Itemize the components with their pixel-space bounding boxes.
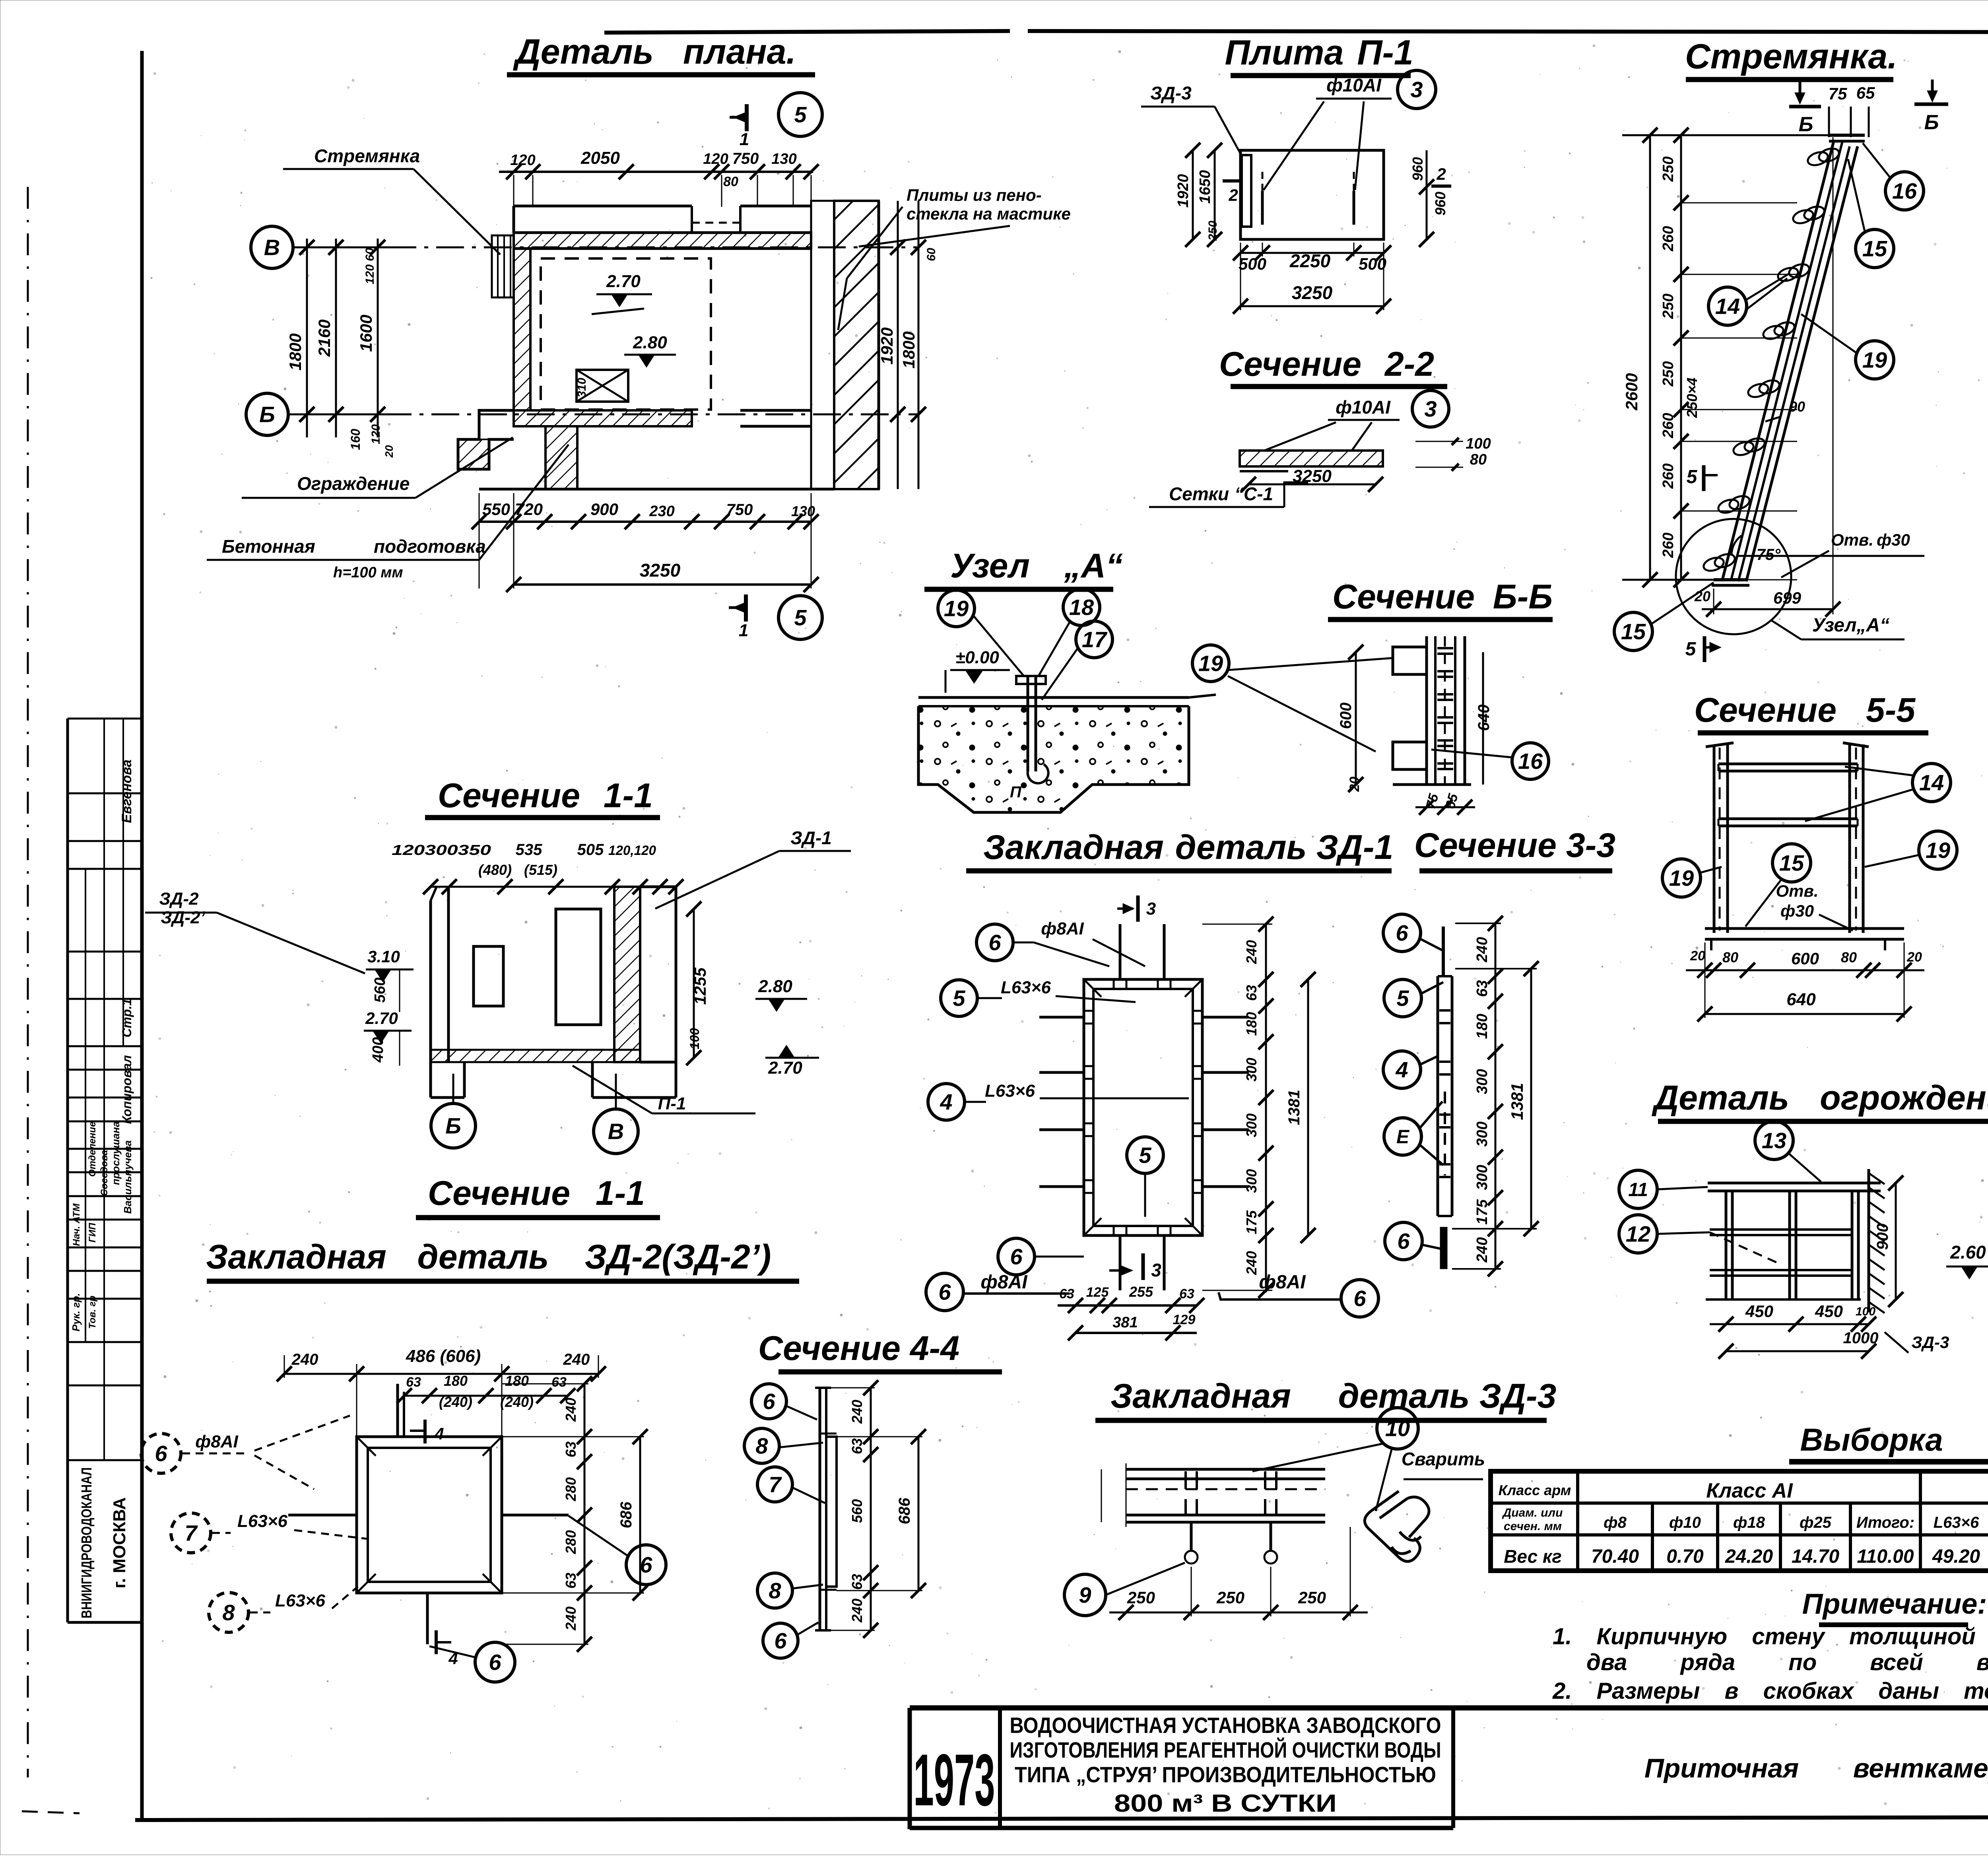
svg-text:300: 300 bbox=[1243, 1058, 1260, 1082]
svg-text:5: 5 bbox=[794, 605, 807, 630]
svg-text:19: 19 bbox=[1862, 348, 1887, 373]
svg-text:240: 240 bbox=[1474, 937, 1491, 962]
svg-text:63: 63 bbox=[1474, 980, 1491, 997]
svg-text:8: 8 bbox=[222, 1600, 235, 1625]
svg-text:1381: 1381 bbox=[1508, 1083, 1526, 1120]
svg-text:2. Размеры в скобках даны толь: 2. Размеры в скобках даны только для t=-… bbox=[1552, 1678, 1988, 1704]
svg-text:ф30: ф30 bbox=[1780, 901, 1814, 920]
svg-text:деталь: деталь bbox=[417, 1238, 549, 1276]
label ZD-3 with leader bbox=[1141, 83, 1241, 155]
svg-text:Стремянка.: Стремянка. bbox=[1685, 37, 1897, 76]
svg-text:180: 180 bbox=[444, 1373, 468, 1389]
title block project name bbox=[1010, 1708, 1454, 1828]
ograzh bottom dims bbox=[1710, 1302, 1949, 1359]
svg-text:900: 900 bbox=[590, 500, 618, 519]
svg-text:1920: 1920 bbox=[1175, 174, 1192, 208]
svg-text:500: 500 bbox=[1359, 254, 1386, 273]
svg-text:ф10АІ: ф10АІ bbox=[1326, 75, 1382, 95]
svg-text:6: 6 bbox=[763, 1389, 775, 1414]
svg-text:2-2: 2-2 bbox=[1384, 345, 1434, 383]
svg-text:90: 90 bbox=[1789, 398, 1805, 415]
svg-text:Закладная: Закладная bbox=[206, 1238, 386, 1276]
svg-text:Отв.: Отв. bbox=[1831, 530, 1873, 549]
grid circles sech11 bbox=[431, 1074, 476, 1148]
svg-text:500: 500 bbox=[1239, 254, 1266, 273]
zd1 section mark 3 bottom bbox=[1109, 1253, 1161, 1280]
svg-text:5: 5 bbox=[953, 986, 965, 1011]
svg-text:плана.: плана. bbox=[683, 32, 796, 71]
svg-text:129: 129 bbox=[1173, 1312, 1196, 1327]
svg-text:L63×6: L63×6 bbox=[1001, 978, 1051, 997]
svg-text:960: 960 bbox=[1409, 157, 1426, 181]
svg-text:250: 250 bbox=[1127, 1588, 1155, 1607]
svg-text:80: 80 bbox=[723, 174, 738, 189]
sech55 frame drawing bbox=[1705, 743, 1904, 950]
svg-text:стекла на мастике: стекла на мастике bbox=[907, 204, 1071, 223]
zd1 section mark 3 top bbox=[1117, 895, 1156, 922]
svg-text:2160: 2160 bbox=[315, 319, 334, 357]
svg-text:ф8АІ: ф8АІ bbox=[195, 1432, 238, 1451]
svg-text:Сечение 3-3: Сечение 3-3 bbox=[1414, 826, 1615, 864]
svg-text:1: 1 bbox=[739, 621, 748, 640]
zd2 top dims bbox=[277, 1346, 606, 1437]
svg-text:огрождения.: огрождения. bbox=[1820, 1079, 1988, 1117]
svg-text:ТИПА „СТРУЯ’ ПРОИЗВОДИТЕЛЬНОСТ: ТИПА „СТРУЯ’ ПРОИЗВОДИТЕЛЬНОСТЬЮ bbox=[1015, 1762, 1436, 1787]
svg-text:6: 6 bbox=[1353, 1286, 1366, 1311]
svg-text:240: 240 bbox=[563, 1351, 590, 1368]
svg-text:240: 240 bbox=[563, 1398, 579, 1422]
ograzhdenie drawing bbox=[1706, 1169, 1885, 1313]
svg-text:Б: Б bbox=[445, 1113, 461, 1138]
svg-text:1: 1 bbox=[740, 130, 749, 149]
zd1 interior callout 5 bbox=[1127, 1137, 1163, 1217]
section mark 5 bottom bbox=[729, 594, 822, 640]
label ograzhdenie bbox=[242, 437, 513, 498]
left title stamp table bbox=[68, 719, 142, 1622]
zd1 callout 6 bottom-left bbox=[998, 1238, 1084, 1275]
svg-text:В: В bbox=[608, 1119, 624, 1144]
svg-text:3: 3 bbox=[1146, 899, 1156, 919]
svg-text:600: 600 bbox=[1337, 703, 1355, 729]
svg-text:Плита: Плита bbox=[1225, 33, 1344, 72]
svg-text:ИЗГОТОВЛЕНИЯ РЕАГЕНТНОЙ ОЧИСТК: ИЗГОТОВЛЕНИЯ РЕАГЕНТНОЙ ОЧИСТКИ ВОДЫ bbox=[1010, 1737, 1441, 1762]
ladder rungs bbox=[1702, 146, 1841, 573]
label plity iz penostekla bbox=[838, 186, 1071, 330]
svg-text:5: 5 bbox=[794, 102, 807, 127]
svg-text:4: 4 bbox=[940, 1090, 952, 1115]
zd2 frame drawing bbox=[288, 1384, 569, 1644]
svg-text:прослушана: прослушана bbox=[110, 1121, 122, 1185]
ladder stringers bbox=[1722, 135, 1865, 608]
svg-text:310: 310 bbox=[575, 378, 588, 398]
svg-text:ф30: ф30 bbox=[1877, 530, 1910, 549]
callout 16 sechBB bbox=[1431, 743, 1549, 779]
svg-text:ЗД-3: ЗД-3 bbox=[1912, 1333, 1949, 1352]
svg-text:60: 60 bbox=[925, 248, 938, 261]
svg-text:сечен. мм: сечен. мм bbox=[1504, 1520, 1562, 1533]
svg-text:300: 300 bbox=[1243, 1113, 1260, 1137]
heading vyborka stali bbox=[1789, 1422, 1988, 1469]
svg-text:2.70: 2.70 bbox=[606, 272, 641, 291]
svg-text:24.20: 24.20 bbox=[1725, 1546, 1773, 1567]
sech55 callout 15 + otv f30 bbox=[1745, 844, 1853, 930]
zd1 callout 6 top bbox=[977, 919, 1145, 966]
svg-text:65: 65 bbox=[1856, 84, 1875, 102]
sech55 callout 14 bbox=[1805, 763, 1951, 821]
svg-text:80: 80 bbox=[1470, 451, 1487, 468]
svg-text:120,120: 120,120 bbox=[608, 843, 656, 858]
svg-text:10: 10 bbox=[1385, 1416, 1410, 1441]
svg-text:550: 550 bbox=[482, 500, 510, 519]
heading stremyanka bbox=[1685, 37, 1897, 80]
sech55 callout 19 left bbox=[1662, 859, 1722, 897]
svg-text:175: 175 bbox=[1243, 1210, 1260, 1234]
svg-text:11: 11 bbox=[1628, 1179, 1648, 1200]
svg-text:505: 505 bbox=[577, 841, 604, 859]
svg-text:3: 3 bbox=[1151, 1260, 1161, 1280]
ladder section 5 marks bbox=[1685, 465, 1719, 662]
svg-text:125: 125 bbox=[1086, 1285, 1109, 1300]
svg-text:6: 6 bbox=[640, 1552, 652, 1577]
svg-text:ЗД-1: ЗД-1 bbox=[790, 827, 832, 848]
ladder callout 14 bbox=[1708, 274, 1789, 325]
svg-text:180: 180 bbox=[1474, 1014, 1491, 1039]
svg-text:800 м³ В СУТКИ: 800 м³ В СУТКИ bbox=[1114, 1790, 1337, 1817]
svg-text:280: 280 bbox=[563, 1530, 579, 1554]
svg-text:63: 63 bbox=[849, 1574, 865, 1590]
svg-text:Диам. или: Диам. или bbox=[1502, 1506, 1563, 1519]
heading sechenie 2-2 bbox=[1219, 345, 1447, 387]
svg-text:Примечание:: Примечание: bbox=[1802, 1588, 1987, 1620]
svg-text:260: 260 bbox=[1660, 413, 1677, 438]
svg-text:49.20: 49.20 bbox=[1932, 1546, 1980, 1567]
svg-text:Сечение: Сечение bbox=[1694, 691, 1837, 729]
svg-text:Вес кг: Вес кг bbox=[1504, 1546, 1562, 1567]
svg-text:130: 130 bbox=[771, 151, 796, 167]
svg-text:1800: 1800 bbox=[899, 331, 918, 368]
svg-text:1-1: 1-1 bbox=[604, 777, 653, 815]
sech33 dim chain bbox=[1452, 916, 1539, 1276]
svg-text:20: 20 bbox=[1347, 777, 1362, 792]
svg-text:16: 16 bbox=[1892, 179, 1917, 204]
svg-text:Класс АІ: Класс АІ bbox=[1706, 1479, 1793, 1502]
svg-text:Копировал: Копировал bbox=[120, 1055, 134, 1124]
svg-text:Узел„А“: Узел„А“ bbox=[1812, 615, 1889, 636]
svg-text:Соседова: Соседова bbox=[99, 1150, 110, 1196]
ladder bottom dims bbox=[1694, 588, 1840, 617]
svg-text:19: 19 bbox=[1198, 651, 1223, 676]
svg-text:15: 15 bbox=[1779, 851, 1804, 876]
svg-text:Стр.1: Стр.1 bbox=[120, 998, 134, 1037]
svg-text:280: 280 bbox=[563, 1477, 579, 1502]
callout 17 uzel bbox=[1042, 621, 1112, 700]
svg-text:250: 250 bbox=[1660, 156, 1677, 182]
svg-text:640: 640 bbox=[1786, 990, 1816, 1009]
callout 19 uzel bbox=[938, 590, 1024, 676]
svg-text:Закладная: Закладная bbox=[1110, 1377, 1291, 1415]
table: steel selection for all products bbox=[1491, 1471, 1988, 1571]
svg-text:1255: 1255 bbox=[691, 967, 709, 1005]
svg-text:Узел: Узел bbox=[950, 547, 1030, 585]
plan interior dashed outline bbox=[541, 258, 711, 410]
svg-text:1. Кирпичную стену толщиной 12: 1. Кирпичную стену толщиной 120 мм армир… bbox=[1553, 1624, 1988, 1649]
sech44 right dims bbox=[831, 1380, 926, 1638]
plan left dimension chains bbox=[286, 239, 398, 458]
uzel A level mark bbox=[945, 648, 1010, 693]
svg-text:63: 63 bbox=[849, 1438, 865, 1454]
left margin fold dash-dot line bbox=[22, 187, 80, 1813]
notes text bbox=[1552, 1624, 1988, 1704]
svg-text:5: 5 bbox=[1396, 986, 1409, 1011]
sech11 left dims bbox=[364, 947, 414, 1066]
zd1 callout 5 bbox=[941, 978, 1136, 1016]
border frame top line bbox=[604, 31, 1988, 33]
label ZD-2 leader bbox=[145, 889, 365, 973]
heading sechenie 4-4 bbox=[758, 1329, 1002, 1372]
svg-text:Б: Б bbox=[1799, 113, 1813, 136]
zd1 bottom dims bbox=[1058, 1284, 1204, 1340]
svg-text:3250: 3250 bbox=[1292, 282, 1333, 303]
svg-text:г. МОСКВА: г. МОСКВА bbox=[110, 1497, 129, 1588]
title block outer bbox=[910, 1708, 1988, 1829]
svg-text:П-1: П-1 bbox=[1357, 33, 1413, 72]
plita P-1 plan drawing bbox=[1241, 150, 1384, 239]
svg-text:венткамера.: венткамера. bbox=[1853, 1753, 1988, 1783]
svg-text:100: 100 bbox=[1856, 1305, 1875, 1318]
svg-text:63: 63 bbox=[551, 1375, 567, 1390]
svg-text:240: 240 bbox=[1243, 1251, 1260, 1275]
svg-text:2: 2 bbox=[1228, 186, 1238, 204]
svg-text:300: 300 bbox=[1243, 1169, 1260, 1193]
svg-text:Сечение: Сечение bbox=[438, 777, 580, 815]
svg-text:175: 175 bbox=[1474, 1199, 1491, 1224]
svg-text:9: 9 bbox=[1079, 1583, 1091, 1608]
label f10AI + callout 3 sech22 bbox=[1264, 390, 1449, 451]
sech11 section drawing bbox=[431, 887, 676, 1097]
svg-text:260: 260 bbox=[1660, 226, 1677, 251]
svg-text:7: 7 bbox=[184, 1521, 198, 1546]
svg-text:3: 3 bbox=[1424, 396, 1437, 422]
svg-text:ф10АІ: ф10АІ bbox=[1336, 397, 1391, 418]
heading zakladnaya detal ZD-2 bbox=[206, 1238, 799, 1281]
svg-text:180: 180 bbox=[1243, 1012, 1260, 1036]
zd1 frame drawing bbox=[1039, 924, 1249, 1290]
svg-text:2: 2 bbox=[1436, 165, 1446, 183]
svg-text:подготовка: подготовка bbox=[374, 536, 486, 557]
ladder callout 15 bottom bbox=[1614, 583, 1714, 651]
svg-text:15: 15 bbox=[1862, 236, 1887, 261]
svg-text:450: 450 bbox=[1815, 1302, 1843, 1321]
svg-text:Е: Е bbox=[1396, 1127, 1410, 1148]
svg-text:1800: 1800 bbox=[286, 333, 305, 370]
zd1 callout 4 bbox=[928, 1081, 1189, 1120]
svg-text:240: 240 bbox=[1474, 1237, 1491, 1263]
label stremyanka bbox=[283, 146, 500, 254]
sech11 right dims bbox=[686, 901, 819, 1078]
zd2 callout 6 dashed bbox=[141, 1416, 350, 1489]
plita right dims bbox=[1409, 150, 1451, 247]
svg-text:686: 686 bbox=[617, 1502, 635, 1528]
svg-text:Б-Б: Б-Б bbox=[1493, 578, 1553, 616]
svg-text:ф25: ф25 bbox=[1800, 1514, 1832, 1531]
svg-text:6: 6 bbox=[988, 930, 1001, 955]
heading zakladnaya detal ZD-3 bbox=[1095, 1377, 1556, 1420]
svg-text:63: 63 bbox=[563, 1441, 579, 1457]
svg-text:260: 260 bbox=[1660, 532, 1677, 558]
svg-text:Отв.: Отв. bbox=[1776, 882, 1818, 900]
svg-text:Евгенова: Евгенова bbox=[119, 760, 134, 823]
label setki S-1 bbox=[1149, 482, 1308, 507]
svg-text:2.70: 2.70 bbox=[365, 1009, 398, 1028]
svg-text:ф18: ф18 bbox=[1733, 1514, 1765, 1531]
svg-text:деталь ЗД-1: деталь ЗД-1 bbox=[1175, 828, 1394, 866]
svg-text:2250: 2250 bbox=[1289, 251, 1331, 271]
heading sechenie 3-3 bbox=[1414, 826, 1615, 871]
svg-text:80: 80 bbox=[1841, 949, 1857, 965]
svg-text:240: 240 bbox=[563, 1606, 579, 1631]
zd3 callout 9 bbox=[1064, 1563, 1185, 1616]
svg-text:4: 4 bbox=[434, 1424, 444, 1443]
svg-text:Класс арм: Класс арм bbox=[1499, 1482, 1571, 1498]
ladder 90 text bbox=[1765, 398, 1805, 422]
uzel A symbol P bbox=[1010, 783, 1022, 801]
svg-text:1-1: 1-1 bbox=[596, 1174, 645, 1212]
sech55 bottom dims bbox=[1686, 942, 1924, 1022]
svg-text:„А“: „А“ bbox=[1064, 547, 1123, 585]
svg-text:ЗД-2(ЗД-2’): ЗД-2(ЗД-2’) bbox=[585, 1238, 771, 1276]
ograzh callout 13 bbox=[1755, 1121, 1821, 1182]
label uzel A on ladder bbox=[1771, 615, 1905, 639]
svg-text:120: 120 bbox=[510, 152, 535, 169]
svg-text:Приточная: Приточная bbox=[1644, 1753, 1799, 1783]
svg-text:8: 8 bbox=[755, 1434, 768, 1459]
svg-text:5: 5 bbox=[1139, 1143, 1151, 1168]
svg-text:15: 15 bbox=[1621, 619, 1646, 644]
plan top dimension chain bbox=[499, 148, 819, 207]
svg-text:250: 250 bbox=[1660, 361, 1677, 387]
svg-text:100: 100 bbox=[1466, 435, 1491, 452]
zd2 callout 6 bottom + mark 4 bbox=[429, 1630, 515, 1682]
svg-text:1000: 1000 bbox=[1843, 1329, 1879, 1347]
callout 18 uzel bbox=[1039, 589, 1100, 676]
svg-text:L63×6: L63×6 bbox=[275, 1591, 326, 1610]
svg-text:В: В bbox=[264, 235, 280, 260]
svg-text:900: 900 bbox=[1874, 1224, 1891, 1250]
svg-text:ВОДООЧИСТНАЯ УСТАНОВКА ЗАВОДСК: ВОДООЧИСТНАЯ УСТАНОВКА ЗАВОДСКОГО bbox=[1010, 1713, 1441, 1738]
svg-text:110.00: 110.00 bbox=[1857, 1546, 1914, 1567]
svg-text:63: 63 bbox=[1059, 1286, 1074, 1301]
svg-text:240: 240 bbox=[1243, 940, 1260, 964]
svg-text:2600: 2600 bbox=[1622, 373, 1641, 410]
heading primechanie bbox=[1802, 1588, 1987, 1625]
svg-text:535: 535 bbox=[516, 841, 542, 859]
uzel A anchor bolt bbox=[1016, 676, 1048, 783]
zd2 callout 6 right bbox=[569, 1516, 666, 1585]
svg-text:20: 20 bbox=[1906, 950, 1922, 965]
svg-text:6: 6 bbox=[1010, 1244, 1023, 1269]
plan bottom dimension chains bbox=[472, 493, 819, 592]
zd2 right dim chains bbox=[502, 1376, 648, 1652]
svg-text:деталь ЗД-3: деталь ЗД-3 bbox=[1338, 1377, 1557, 1415]
plan interior details bbox=[575, 272, 676, 402]
svg-text:h=100 мм: h=100 мм bbox=[333, 564, 403, 581]
svg-text:(515): (515) bbox=[524, 862, 557, 878]
heading sechenie 1-1 upper bbox=[425, 777, 660, 818]
svg-text:6: 6 bbox=[774, 1628, 787, 1653]
heading uzel A bbox=[924, 547, 1123, 589]
section mark 5 top bbox=[730, 93, 822, 149]
border frame left line bbox=[140, 51, 144, 1820]
svg-text:6: 6 bbox=[489, 1650, 501, 1675]
svg-text:L63×6: L63×6 bbox=[985, 1081, 1035, 1101]
svg-text:2.60: 2.60 bbox=[1950, 1242, 1986, 1263]
svg-text:2.70: 2.70 bbox=[768, 1058, 802, 1078]
svg-text:18: 18 bbox=[1069, 595, 1094, 620]
svg-text:Сечение: Сечение bbox=[1219, 345, 1361, 383]
label betonnaya podgotovka bbox=[207, 445, 569, 581]
svg-text:6: 6 bbox=[155, 1441, 167, 1466]
svg-text:75: 75 bbox=[1829, 84, 1847, 103]
ladder callout 16 bbox=[1863, 143, 1924, 210]
svg-text:ЗД-2: ЗД-2 bbox=[159, 889, 199, 909]
svg-text:6: 6 bbox=[938, 1280, 951, 1305]
svg-text:20: 20 bbox=[1690, 948, 1705, 963]
svg-text:120: 120 bbox=[703, 151, 728, 167]
svg-text:два ряда по всей высоте кладки: два ряда по всей высоте кладки. bbox=[1586, 1649, 1988, 1675]
heading sechenie 5-5 bbox=[1694, 691, 1928, 733]
svg-text:120: 120 bbox=[369, 424, 382, 444]
sech33 strip bbox=[1438, 927, 1452, 1269]
svg-text:ф8: ф8 bbox=[1604, 1514, 1627, 1531]
border frame bottom line bbox=[135, 1816, 1988, 1820]
svg-text:Отделение: Отделение bbox=[87, 1122, 98, 1177]
svg-text:14: 14 bbox=[1715, 294, 1740, 319]
svg-text:8: 8 bbox=[769, 1578, 781, 1603]
svg-text:Бетонная: Бетонная bbox=[222, 536, 315, 557]
svg-text:ф8АІ: ф8АІ bbox=[1041, 919, 1084, 938]
svg-text:400: 400 bbox=[370, 1037, 386, 1063]
zd1 bottom labels bbox=[926, 1272, 1070, 1311]
heading detal plana bbox=[507, 32, 815, 75]
svg-text:640: 640 bbox=[1475, 705, 1493, 731]
svg-text:240: 240 bbox=[849, 1400, 865, 1424]
heading zakladnaya detal ZD-1 bbox=[966, 828, 1393, 871]
sech11 top dims bbox=[392, 841, 683, 894]
svg-text:120300350: 120300350 bbox=[392, 842, 491, 858]
stamp signatures rotated text bbox=[70, 760, 134, 1331]
svg-text:14: 14 bbox=[1919, 770, 1944, 795]
zd2 callout 7 bbox=[171, 1511, 368, 1553]
svg-text:Васильнучева: Васильнучева bbox=[122, 1140, 134, 1214]
svg-text:6: 6 bbox=[1396, 921, 1408, 946]
svg-text:63: 63 bbox=[406, 1375, 421, 1390]
svg-text:699: 699 bbox=[1773, 589, 1802, 607]
svg-text:100: 100 bbox=[687, 1028, 702, 1049]
svg-text:1600: 1600 bbox=[357, 315, 375, 352]
callout 19 sechBB bbox=[1192, 645, 1392, 752]
svg-text:20: 20 bbox=[1694, 588, 1710, 604]
zd3 bottom dims bbox=[1109, 1527, 1368, 1620]
svg-text:63: 63 bbox=[1179, 1286, 1194, 1301]
svg-text:250×4: 250×4 bbox=[1684, 377, 1700, 418]
svg-text:63: 63 bbox=[563, 1573, 579, 1589]
svg-text:230: 230 bbox=[649, 503, 674, 520]
svg-text:ЗД-2’: ЗД-2’ bbox=[161, 908, 205, 927]
svg-text:60: 60 bbox=[363, 248, 377, 261]
ograzh callout 11 bbox=[1619, 1170, 1708, 1208]
svg-text:Сварить: Сварить bbox=[1402, 1449, 1485, 1469]
plita bottom dims bbox=[1233, 243, 1391, 314]
